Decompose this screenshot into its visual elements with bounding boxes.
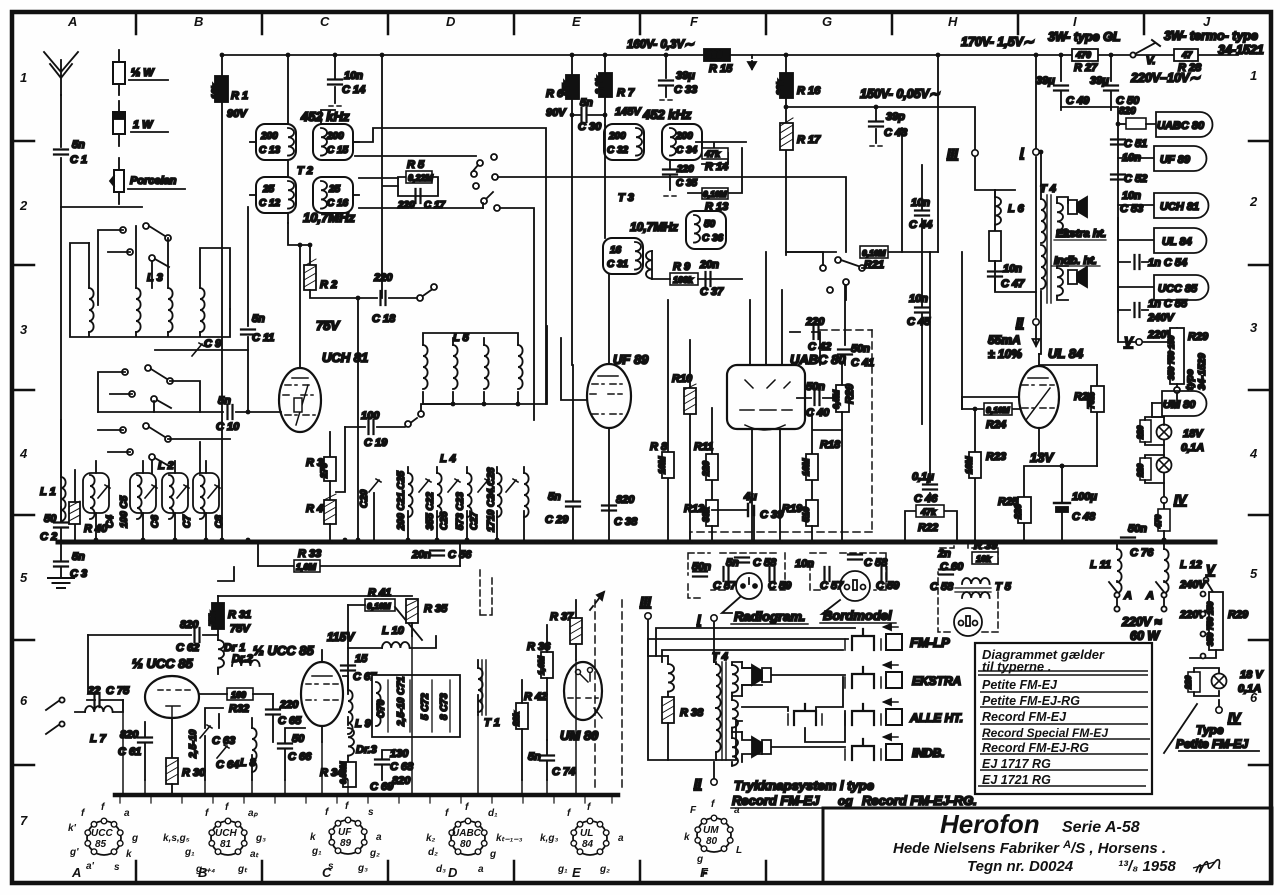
svg-text:C 58: C 58 [753, 557, 777, 569]
antenna [44, 52, 78, 95]
svg-text:390: 390 [707, 50, 722, 60]
svg-text:820: 820 [1119, 106, 1136, 117]
wire 150V line [786, 107, 975, 149]
svg-text:g₂: g₂ [599, 864, 610, 875]
resistor R17 [785, 98, 787, 255]
svg-text:UCC: UCC [91, 828, 113, 839]
svg-text:R12: R12 [684, 503, 704, 515]
resistor R28 [1174, 49, 1198, 61]
capacitor C52 [1111, 175, 1125, 180]
svg-text:C 64: C 64 [216, 759, 239, 771]
capacitor C3 [54, 562, 68, 567]
svg-text:4: 4 [1249, 446, 1258, 461]
switch cluster mid [122, 365, 173, 408]
capacitor C54 [1118, 261, 1148, 263]
svg-text:Ekstra ht.: Ekstra ht. [1056, 228, 1106, 240]
terminal III [972, 150, 978, 156]
svg-text:Bordmodel: Bordmodel [823, 608, 892, 623]
svg-text:ALLE HT.: ALLE HT. [909, 711, 963, 725]
svg-text:145V: 145V [615, 106, 642, 118]
arrow I dashed [751, 55, 753, 69]
wire osc bottoms [123, 636, 576, 795]
svg-text:39p: 39p [886, 111, 905, 123]
resistor R21 [786, 251, 938, 253]
tube UABC80 [727, 365, 805, 429]
capacitor C10 [98, 411, 281, 413]
svg-text:Tegn nr. D0024: Tegn nr. D0024 [967, 858, 1074, 875]
trimmer bank box T1 [372, 675, 460, 737]
tag UCC85 [1118, 275, 1209, 300]
svg-text:10,7MHz: 10,7MHz [630, 220, 678, 234]
resistor R19 [806, 500, 818, 526]
svg-text:R26: R26 [1074, 391, 1095, 403]
svg-text:39μ: 39μ [1090, 75, 1109, 87]
capacitor C67 [347, 605, 349, 694]
trimmer C28 [506, 479, 518, 492]
svg-text:R32: R32 [229, 703, 249, 715]
svg-text:220: 220 [1184, 675, 1193, 690]
svg-text:I: I [1073, 14, 1077, 29]
svg-text:EJ 1717 RG: EJ 1717 RG [982, 757, 1051, 771]
svg-text:g₃: g₃ [357, 863, 368, 874]
svg-text:0,1A: 0,1A [1238, 683, 1261, 695]
svg-text:240V: 240V [1147, 312, 1175, 324]
resistor R26 [1096, 365, 1098, 466]
resistor R27 [1072, 49, 1098, 61]
svg-text:UCH 81: UCH 81 [1160, 201, 1199, 213]
svg-text:4: 4 [19, 446, 28, 461]
coil L1 [61, 477, 66, 521]
svg-text:10n: 10n [795, 558, 814, 570]
svg-text:UF 89: UF 89 [1160, 154, 1191, 166]
svg-text:C 18: C 18 [372, 313, 396, 325]
coil L6 [994, 190, 996, 197]
svg-text:L 7: L 7 [90, 733, 107, 745]
svg-text:L 3: L 3 [147, 272, 163, 284]
wires UABC80 bottom [752, 429, 780, 542]
svg-text:47k: 47k [704, 149, 721, 159]
wire UF89 cathode [608, 428, 610, 542]
svg-text:R 1: R 1 [231, 90, 248, 102]
svg-text:22k: 22k [775, 79, 785, 96]
capacitor C35 [669, 160, 671, 190]
resistor R24 [962, 408, 1019, 410]
svg-text:R10: R10 [672, 373, 693, 385]
resistor R5 with C17 [382, 55, 398, 298]
svg-text:10n: 10n [911, 197, 930, 209]
trimmer C25 [419, 479, 431, 492]
svg-text:510: 510 [801, 507, 811, 522]
resistor R3 [329, 432, 331, 457]
svg-text:452 kHz: 452 kHz [300, 109, 350, 124]
switch V [1133, 43, 1155, 55]
svg-text:220: 220 [701, 461, 711, 477]
capacitor C14 [334, 55, 336, 103]
svg-text:220: 220 [373, 272, 393, 284]
svg-text:C 38: C 38 [614, 516, 638, 528]
capacitor C62 [88, 634, 218, 636]
resistor R16 [785, 55, 787, 73]
resistor R11 [711, 408, 713, 500]
svg-text:C 57: C 57 [820, 580, 844, 592]
svg-text:60 W: 60 W [1130, 629, 1160, 643]
resistor R29 (barretter) [1170, 328, 1184, 384]
svg-text:og: og [838, 794, 853, 808]
svg-text:R29: R29 [1188, 331, 1209, 343]
capacitor C37 [706, 272, 711, 286]
svg-text:g₁: g₁ [557, 864, 568, 875]
svg-text:81: 81 [220, 839, 232, 850]
svg-text:A: A [71, 865, 81, 880]
wire UCH81 anode [288, 223, 310, 368]
DIN bordmodel [840, 571, 870, 601]
terminal II bottom [711, 779, 717, 785]
svg-text:R 14: R 14 [705, 161, 728, 173]
svg-text:R 40: R 40 [84, 523, 108, 535]
svg-text:UL: UL [580, 828, 593, 839]
lamp 2 [1157, 458, 1172, 473]
svg-text:C 46: C 46 [914, 493, 938, 505]
svg-text:A: A [67, 14, 77, 29]
capacitor C57 radiogram [724, 567, 729, 581]
svg-text:R23: R23 [986, 451, 1006, 463]
svg-text:5n: 5n [548, 491, 561, 503]
coil bank L4 [408, 467, 524, 540]
svg-text:H: H [948, 14, 958, 29]
svg-text:UL 84: UL 84 [1162, 236, 1192, 248]
resistor R35 [406, 599, 418, 623]
svg-text:a: a [734, 805, 740, 816]
svg-text:10n: 10n [1122, 190, 1141, 202]
svg-text:115V: 115V [327, 630, 355, 644]
label bordmodel [822, 600, 840, 614]
svg-text:C 60: C 60 [940, 561, 964, 573]
switch cluster G2 [820, 257, 865, 293]
T4 primary [1041, 199, 1046, 243]
svg-text:F: F [690, 14, 699, 29]
svg-text:E: E [572, 14, 581, 29]
svg-text:13V: 13V [1030, 450, 1054, 465]
socket UCH81 [209, 818, 247, 855]
svg-text:R25: R25 [998, 496, 1019, 508]
tag UABC80 [1146, 112, 1213, 137]
capacitor C66 [285, 728, 305, 780]
svg-text:130: 130 [390, 748, 409, 760]
legend resistor porcelain [110, 158, 124, 204]
capacitor C58a [735, 558, 749, 563]
svg-text:89: 89 [340, 838, 352, 849]
dashed arrow R37 [590, 592, 604, 610]
svg-text:kₜ₋₁₋₃: kₜ₋₁₋₃ [496, 833, 523, 844]
svg-text:55mA: 55mA [988, 333, 1021, 347]
svg-text:3: 3 [20, 322, 28, 337]
svg-text:I: I [697, 612, 701, 627]
wire top rail osc [218, 567, 412, 596]
svg-text:2n: 2n [937, 548, 951, 560]
coil L3c [168, 288, 173, 332]
svg-text:L 10: L 10 [382, 625, 405, 637]
svg-text:III: III [947, 146, 958, 161]
svg-text:R19: R19 [782, 503, 803, 515]
resistor R8 [667, 300, 669, 542]
svg-text:Record FM-EJ-RG: Record FM-EJ-RG [982, 741, 1089, 755]
capacitor C11 [247, 207, 249, 412]
svg-text:7: 7 [20, 813, 28, 828]
wire R26 top [1039, 364, 1097, 366]
svg-text:10k: 10k [210, 83, 220, 99]
T4 secondary a [1057, 203, 1063, 231]
terminal V [1136, 339, 1142, 345]
svg-text:C 48: C 48 [1072, 511, 1096, 523]
svg-text:L 8: L 8 [240, 757, 257, 769]
terminal II [1033, 319, 1039, 325]
dashed boundary oscillator right [594, 600, 596, 790]
terminal I [1033, 149, 1039, 155]
svg-text:J: J [1203, 14, 1211, 29]
resistor R14 [696, 142, 746, 164]
T4 sec 2 [732, 700, 738, 728]
switch cluster D2 [471, 154, 500, 211]
socket UF89 [329, 817, 367, 854]
svg-text:84: 84 [582, 839, 594, 850]
capacitor C61 [144, 722, 146, 780]
capacitor C1 [54, 150, 68, 155]
capacitor C19 [345, 418, 417, 427]
heater chain vertical [1061, 107, 1118, 310]
row tick marks left [12, 141, 34, 765]
svg-text:A: A [1123, 590, 1132, 602]
svg-text:50n: 50n [1128, 523, 1147, 535]
svg-text:C70: C70 [376, 699, 387, 718]
svg-text:k₂: k₂ [426, 833, 436, 844]
svg-text:160V- 0,3V∼: 160V- 0,3V∼ [627, 39, 694, 51]
coil L4b [437, 473, 442, 517]
svg-text:R 15: R 15 [709, 63, 733, 75]
resistor R15 [704, 49, 730, 61]
svg-text:gₜ: gₜ [237, 864, 248, 875]
svg-text:C 59: C 59 [768, 580, 792, 592]
signature [1196, 860, 1220, 873]
svg-text:50: 50 [704, 219, 716, 230]
svg-text:1 W: 1 W [133, 119, 154, 131]
svg-text:a: a [124, 808, 130, 819]
coil L4c [467, 473, 472, 517]
socket UABC80 [449, 818, 487, 855]
capacitor C42 [790, 332, 820, 365]
capacitor C51 [1111, 140, 1125, 145]
coil L11 [1116, 542, 1118, 549]
svg-text:5: 5 [1250, 566, 1258, 581]
svg-text:R18: R18 [820, 439, 841, 451]
svg-text:C 30: C 30 [578, 121, 602, 133]
lamp 1 [1157, 425, 1172, 440]
coil Dr3 [348, 728, 354, 756]
svg-text:g: g [489, 849, 496, 860]
svg-text:s: s [114, 862, 120, 873]
capacitor C47 [988, 272, 1002, 277]
capacitor C57 bordmodel [825, 567, 830, 581]
svg-text:5n: 5n [580, 97, 593, 109]
capacitor C40 [797, 397, 836, 399]
svg-text:C27: C27 [469, 511, 480, 530]
svg-text:R 38: R 38 [680, 707, 704, 719]
tube UM80 [564, 662, 602, 720]
svg-text:k': k' [68, 823, 77, 834]
svg-text:0,1A: 0,1A [1181, 442, 1204, 454]
svg-text:E: E [572, 865, 581, 880]
svg-text:g': g' [69, 847, 79, 858]
svg-text:C 76: C 76 [1130, 547, 1154, 559]
coil R38 top [668, 664, 674, 692]
svg-text:UF 89: UF 89 [613, 352, 649, 367]
svg-text:1: 1 [20, 70, 27, 85]
svg-text:C 49: C 49 [1066, 95, 1090, 107]
svg-text:¹³/₈ 1958: ¹³/₈ 1958 [1118, 858, 1176, 875]
svg-text:Herofon: Herofon [940, 809, 1040, 839]
resistor R20 [836, 385, 849, 412]
svg-text:470: 470 [1154, 514, 1163, 529]
coil can C36 [686, 211, 726, 249]
resistor R13 [688, 148, 742, 193]
wire: oscillator bottom thick line [115, 793, 618, 798]
svg-text:G: G [822, 14, 832, 29]
svg-text:UABC 80: UABC 80 [1157, 120, 1205, 132]
svg-text:C 58: C 58 [930, 581, 954, 593]
capacitor 50n radiogram [693, 572, 707, 577]
svg-text:R 39: R 39 [974, 540, 998, 552]
svg-text:C 75: C 75 [106, 685, 130, 697]
wire UL84 grid left [962, 397, 1019, 409]
IF transformer T2 can C16 [313, 177, 359, 213]
svg-text:C7: C7 [182, 515, 193, 528]
svg-text:C 68: C 68 [390, 761, 414, 773]
svg-text:III: III [640, 594, 651, 609]
svg-text:1,0M: 1,0M [536, 655, 546, 675]
resistor R30 [171, 718, 173, 758]
svg-text:4μ: 4μ [743, 491, 757, 503]
row numbers right [1249, 68, 1258, 705]
svg-text:100: 100 [231, 690, 246, 700]
svg-text:350 750 150: 350 750 150 [1167, 335, 1176, 380]
coil bank L2 [83, 473, 110, 519]
svg-text:10k: 10k [976, 554, 992, 564]
wire branch row2 [61, 206, 142, 208]
svg-text:47: 47 [1181, 50, 1193, 60]
svg-text:16: 16 [610, 245, 622, 256]
wire UL84 cathode [1038, 428, 1040, 456]
resistor R2 [309, 245, 311, 265]
resistor R23 [962, 252, 975, 542]
svg-text:C 52: C 52 [1124, 173, 1147, 185]
svg-text:150V- 0,05V∼: 150V- 0,05V∼ [860, 87, 940, 101]
capacitor C55 [1118, 309, 1148, 311]
svg-text:10M: 10M [964, 456, 974, 474]
switch cluster L3 [120, 223, 171, 267]
svg-text:C 41: C 41 [851, 357, 874, 369]
svg-text:L 12: L 12 [1180, 559, 1202, 571]
svg-text:0,5M: 0,5M [831, 389, 841, 409]
svg-text:C 1: C 1 [70, 154, 87, 166]
svg-text:820: 820 [616, 494, 635, 506]
svg-text:Record FM-EJ: Record FM-EJ [982, 710, 1067, 724]
svg-text:1n C 55: 1n C 55 [1148, 298, 1188, 310]
svg-text:350 750 150: 350 750 150 [1206, 601, 1215, 646]
svg-text:Dr.2: Dr.2 [232, 653, 253, 665]
capacitor C59 radiogram [770, 567, 775, 581]
svg-text:3W- type GL: 3W- type GL [1048, 30, 1120, 44]
switch A left [1109, 582, 1117, 593]
coil L4e [524, 473, 529, 517]
terminal III bottom [645, 613, 651, 619]
IF transformer T2 can C12 [250, 177, 296, 213]
svg-text:0,1μ: 0,1μ [912, 471, 934, 483]
coil L5a [423, 345, 428, 389]
resistor R31 [217, 596, 219, 603]
svg-text:d₁: d₁ [488, 808, 498, 819]
svg-text:C 59: C 59 [876, 580, 900, 592]
svg-text:C 36: C 36 [702, 233, 724, 244]
tube UCH81 [279, 368, 321, 432]
coil L8 [252, 728, 257, 772]
svg-text:0,10M: 0,10M [862, 248, 887, 258]
svg-text:A: A [1145, 590, 1154, 602]
resistor 82ohm heater [1118, 123, 1126, 125]
svg-text:2,5-10: 2,5-10 [188, 729, 199, 759]
svg-text:T 1: T 1 [484, 717, 500, 729]
wires long verticals center [902, 55, 938, 252]
resistor R32 [227, 688, 253, 700]
svg-text:C 31: C 31 [607, 259, 629, 270]
resistor lamp shunt 1 [1140, 420, 1151, 442]
resistor R39 [972, 552, 998, 564]
resistor R34 [343, 762, 356, 787]
svg-text:C 37: C 37 [700, 286, 724, 298]
dashed box T5 [938, 542, 998, 632]
capacitor C18 [310, 288, 434, 298]
svg-text:UL 84: UL 84 [1048, 346, 1084, 361]
svg-text:g₃: g₃ [255, 833, 266, 844]
svg-text:I: I [1020, 145, 1024, 160]
svg-text:22k: 22k [511, 711, 521, 727]
svg-text:R 35: R 35 [424, 603, 448, 615]
svg-text:C 44: C 44 [909, 219, 932, 231]
svg-text:220V ≈: 220V ≈ [1121, 615, 1162, 629]
socket UM80 [695, 815, 733, 852]
resistor R12 [706, 500, 718, 526]
svg-text:R 42: R 42 [524, 691, 547, 703]
svg-text:UF: UF [338, 827, 352, 838]
svg-text:200: 200 [675, 131, 693, 142]
svg-text:90V: 90V [546, 107, 567, 119]
svg-text:Trykknapsystem i type: Trykknapsystem i type [734, 778, 874, 793]
wire T2 cans [287, 55, 289, 223]
svg-text:50n: 50n [851, 343, 870, 355]
svg-text:C 2: C 2 [40, 531, 57, 543]
svg-text:Record FM-EJ-RG.: Record FM-EJ-RG. [862, 793, 977, 808]
svg-text:T 4: T 4 [1040, 183, 1056, 195]
T4 primary winding [716, 664, 721, 708]
resistor R29 bottom [1209, 592, 1223, 650]
resistor L6 damp [994, 225, 996, 231]
svg-text:C 65: C 65 [278, 715, 302, 727]
svg-text:100k: 100k [673, 275, 694, 285]
trimmer C63 C64 [205, 708, 223, 780]
svg-text:k: k [684, 832, 690, 843]
svg-text:C 33: C 33 [674, 84, 697, 96]
resistor R25 [1024, 466, 1097, 542]
row numbers left [19, 70, 28, 828]
capacitor C17 [416, 189, 421, 203]
